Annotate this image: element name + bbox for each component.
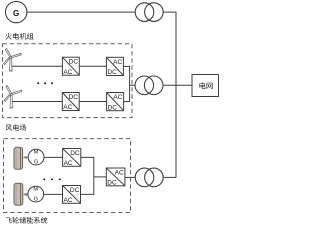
flywheel FW2	[14, 183, 23, 205]
transformer T2	[135, 76, 154, 95]
label 火电机组	[5, 33, 33, 40]
wire row1 to wind bus	[123, 65, 129, 67]
generator G	[6, 1, 27, 22]
converter AC/DC wind row1	[62, 57, 79, 75]
svg-text:AC: AC	[113, 59, 122, 66]
wind farm dashed box	[3, 44, 133, 118]
wire row2 to wind bus	[124, 101, 130, 103]
svg-text:AC: AC	[115, 170, 124, 177]
wire G to T1	[27, 11, 135, 13]
wire WT1 to converter	[12, 65, 63, 67]
converter AC/DC storage row1	[63, 149, 81, 167]
svg-text:G: G	[34, 160, 39, 166]
svg-text:DC: DC	[108, 104, 118, 111]
svg-text:DC: DC	[107, 69, 117, 76]
converter DC/AC wind row1	[106, 57, 123, 75]
svg-text:AC: AC	[113, 94, 122, 101]
converter AC/DC storage row2	[63, 186, 81, 204]
svg-text:AC: AC	[64, 197, 73, 204]
svg-text:DC: DC	[69, 94, 79, 101]
transformer T3	[135, 168, 154, 187]
wire MG1 to converter	[44, 156, 63, 158]
wire T2 to grid box	[163, 84, 192, 86]
svg-text:DC: DC	[70, 187, 80, 194]
svg-text:G: G	[13, 9, 19, 18]
wire storage row1 to dc bus	[81, 157, 94, 177]
converter DC/AC storage shared	[106, 168, 125, 186]
wire row2 between converters	[79, 101, 106, 103]
wire storage row2 to dc bus	[81, 177, 94, 195]
wire wind bus to T2	[130, 84, 136, 86]
wire MG2 to converter	[44, 193, 63, 195]
converter DC/AC wind row2	[107, 93, 124, 111]
svg-text:DC: DC	[70, 150, 80, 157]
svg-text:M: M	[33, 187, 38, 193]
dots wind	[37, 82, 39, 84]
shaft arrow FW1	[26, 156, 29, 158]
svg-text:AC: AC	[63, 104, 72, 111]
flywheel FW1	[14, 147, 23, 169]
wire dc bus to shared inverter	[94, 176, 107, 178]
transformer T1	[135, 3, 154, 22]
shaft arrow FW2	[26, 193, 28, 195]
wind turbine WT2	[4, 85, 22, 108]
dots storage	[43, 178, 45, 180]
wire row1 between converters	[79, 65, 106, 67]
wire WT2 to converter	[12, 101, 62, 103]
svg-text:DC: DC	[107, 179, 117, 186]
svg-text:M: M	[34, 150, 39, 156]
machine MG2	[28, 186, 44, 202]
wire T3 to right bus	[163, 176, 176, 178]
wind turbine WT1	[4, 49, 22, 72]
svg-text:AC: AC	[63, 69, 72, 76]
label 风电场	[5, 124, 26, 131]
svg-text:DC: DC	[69, 59, 79, 66]
label 飞轮储能系统	[5, 217, 47, 224]
grid box 电网	[192, 75, 219, 97]
svg-text:AC: AC	[64, 160, 73, 167]
wire shared inverter to T3	[125, 176, 135, 178]
wire T1 to right bus with corner	[163, 12, 176, 177]
machine MG1	[28, 149, 44, 165]
converter AC/DC wind row2	[62, 93, 79, 111]
svg-text:G: G	[34, 197, 39, 203]
wind collection bus	[129, 66, 131, 102]
flywheel storage dashed box	[4, 139, 131, 213]
